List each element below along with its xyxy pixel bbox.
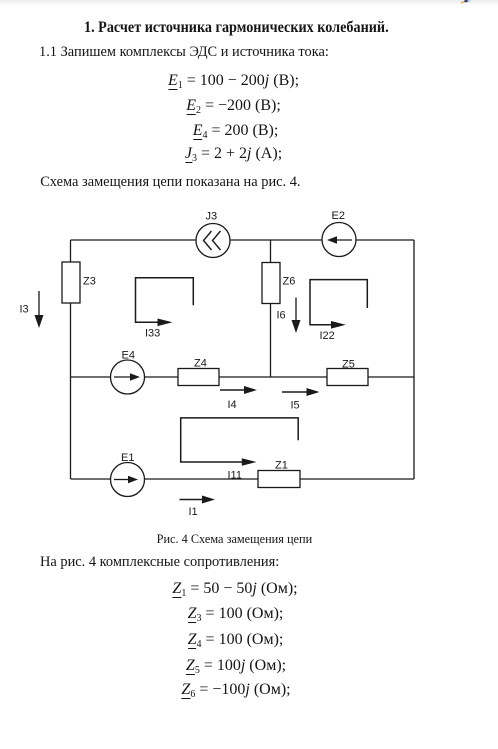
wire middle row left	[71, 376, 111, 378]
impedance Z5	[327, 369, 368, 386]
wire Z4 to Z5	[219, 376, 327, 378]
svg-text:Z1: Z1	[275, 460, 288, 472]
voltage source E1	[111, 463, 145, 497]
wire Z5 to right	[368, 376, 414, 378]
loop arrow I11	[181, 418, 299, 462]
equation Z6	[181, 682, 290, 698]
svg-text:Z3: Z3	[83, 276, 96, 288]
svg-text:Z4: Z4	[194, 358, 207, 370]
wire bottom left	[71, 478, 111, 480]
current arrow I1	[180, 499, 204, 501]
equation Z5	[186, 658, 286, 674]
equation E2	[186, 98, 281, 114]
caption	[157, 533, 313, 545]
impedance Z3	[62, 262, 80, 303]
para 1.1	[39, 45, 329, 59]
svg-text:I4: I4	[228, 399, 237, 411]
svg-text:I6: I6	[277, 310, 286, 322]
svg-text:I5: I5	[291, 400, 300, 412]
loop arrow I22	[310, 280, 367, 325]
current source J3	[196, 224, 230, 258]
wire right side	[413, 240, 415, 479]
wire left upper	[70, 240, 72, 262]
loop arrow I33	[136, 278, 194, 323]
wire Z1 to right	[300, 478, 414, 480]
para scheme	[40, 175, 300, 189]
tiny cursor mark top right	[0, 0, 498, 10]
equation E1	[168, 73, 299, 89]
impedance Z4	[178, 369, 219, 386]
svg-text:I22: I22	[320, 330, 335, 342]
wire left lower	[70, 303, 72, 479]
wire E4 to Z4	[145, 376, 179, 378]
svg-text:Z6: Z6	[283, 276, 296, 288]
wire top right	[356, 239, 414, 241]
current arrow I3	[38, 291, 40, 316]
top gradient band	[0, 0, 498, 8]
circuit schematic SVG	[0, 0, 498, 560]
para impedances	[40, 555, 279, 569]
voltage source E4	[111, 360, 145, 394]
equation E4	[193, 123, 279, 139]
equation Z3	[188, 606, 284, 622]
voltage source E2	[322, 223, 356, 257]
current arrow I5	[282, 391, 307, 393]
equation J3	[185, 146, 282, 162]
wire E1 to Z1	[145, 478, 259, 480]
wire top middle	[230, 239, 322, 241]
title	[84, 20, 389, 36]
svg-text:E2: E2	[332, 210, 345, 222]
wire middle vertical lower	[270, 304, 272, 378]
current arrow I4	[220, 389, 245, 391]
svg-text:I33: I33	[145, 328, 160, 340]
current arrow I6	[295, 298, 297, 322]
equation Z4	[188, 632, 284, 648]
svg-text:I3: I3	[20, 304, 29, 316]
impedance Z6	[262, 263, 280, 304]
wire middle vertical upper	[270, 240, 272, 263]
wire top left	[71, 239, 197, 241]
svg-text:I11: I11	[228, 470, 242, 482]
svg-text:J3: J3	[206, 211, 218, 223]
svg-text:I1: I1	[189, 506, 198, 518]
impedance Z1	[258, 471, 300, 488]
equation Z1	[172, 581, 297, 597]
